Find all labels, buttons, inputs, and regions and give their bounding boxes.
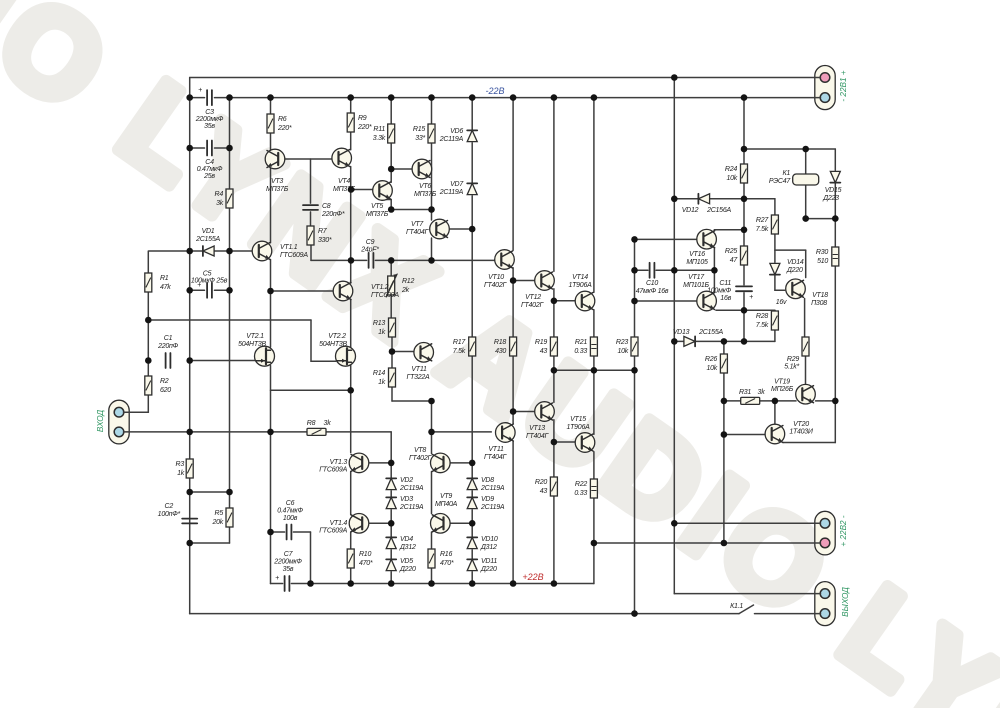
svg-text:VT18: VT18 bbox=[812, 292, 828, 299]
svg-text:ВЫХОД: ВЫХОД bbox=[841, 587, 850, 617]
wire to R28 top bbox=[744, 309, 775, 311]
wire VD2-VD3 bbox=[390, 491, 392, 496]
svg-text:100в: 100в bbox=[283, 515, 298, 522]
svg-text:2k: 2k bbox=[401, 287, 410, 294]
junction bbox=[631, 298, 638, 305]
svg-text:2С156А: 2С156А bbox=[706, 207, 731, 214]
svg-text:430: 430 bbox=[495, 348, 506, 355]
svg-text:VT1.1: VT1.1 bbox=[280, 244, 298, 251]
junction bbox=[741, 338, 748, 345]
svg-text:Д220: Д220 bbox=[786, 267, 803, 274]
resistor R3 bbox=[186, 459, 193, 478]
svg-text:РЭС47: РЭС47 bbox=[769, 178, 791, 185]
svg-text:R11: R11 bbox=[373, 126, 385, 133]
wire VT1.2 base bbox=[271, 290, 334, 292]
diode VD11 bbox=[467, 559, 477, 570]
junction bbox=[832, 215, 839, 222]
wire bbox=[390, 200, 392, 210]
wire VT11 ГТ322А base bbox=[392, 351, 414, 353]
wire VD4-VD5 bbox=[390, 550, 392, 558]
wire R5 top lead bbox=[229, 492, 231, 508]
svg-text:2С119А: 2С119А bbox=[480, 485, 505, 492]
wire VD15 bottom lead bbox=[834, 184, 836, 219]
transistor VT8 bbox=[431, 453, 451, 473]
wire to VT8 bbox=[431, 432, 433, 454]
svg-text:35в: 35в bbox=[204, 123, 215, 130]
svg-text:VD12: VD12 bbox=[682, 207, 699, 214]
junction bbox=[721, 540, 728, 547]
svg-text:1k: 1k bbox=[378, 379, 386, 386]
wire C8 to R7 bbox=[310, 212, 312, 226]
svg-text:2С119А: 2С119А bbox=[399, 504, 424, 511]
junction bbox=[591, 367, 598, 374]
svg-text:VT19: VT19 bbox=[774, 379, 790, 386]
diode VD3 bbox=[386, 497, 396, 508]
junction bbox=[631, 367, 638, 374]
junction bbox=[428, 580, 435, 587]
svg-text:VD13: VD13 bbox=[673, 329, 690, 336]
wire R10 bottom bbox=[350, 568, 352, 584]
svg-text:R20: R20 bbox=[535, 479, 547, 486]
junction bbox=[226, 287, 233, 294]
wire to R12 bbox=[390, 260, 392, 276]
svg-text:VD8: VD8 bbox=[481, 477, 494, 484]
junction bbox=[428, 94, 435, 101]
transistor VT17 bbox=[697, 291, 717, 311]
wire C4 row left bbox=[190, 147, 205, 149]
junction bbox=[186, 357, 193, 364]
svg-text:+22В: +22В bbox=[522, 572, 543, 582]
junction bbox=[469, 460, 476, 467]
svg-text:2С155А: 2С155А bbox=[195, 236, 220, 243]
diode VD4 bbox=[386, 537, 396, 548]
capacitor C11 bbox=[736, 286, 752, 291]
junction bbox=[741, 146, 748, 153]
wire VT3-VT4 bases bbox=[285, 158, 332, 160]
svg-text:МП37Б: МП37Б bbox=[366, 211, 389, 218]
svg-text:МП105: МП105 bbox=[686, 259, 708, 266]
wire R31 to VT19 base bbox=[760, 400, 796, 402]
junction bbox=[721, 398, 728, 405]
junction bbox=[741, 196, 748, 203]
wire VT12 to R19 bbox=[553, 289, 555, 337]
svg-text:Д223: Д223 bbox=[822, 195, 839, 202]
wire rail to VT10 bbox=[512, 98, 514, 251]
wire R14 bottom bbox=[391, 386, 393, 401]
wire sense column top bbox=[634, 239, 636, 337]
wire input top pin to R2 bbox=[124, 411, 149, 413]
svg-text:C9: C9 bbox=[366, 239, 375, 246]
svg-text:470*: 470* bbox=[359, 560, 373, 567]
wire VD12 right bbox=[710, 198, 744, 200]
svg-text:R16: R16 bbox=[440, 551, 452, 558]
svg-text:R9: R9 bbox=[358, 115, 367, 122]
wire relay bottom to VD15 bbox=[806, 218, 836, 220]
wire R26 down to return bbox=[723, 373, 725, 543]
svg-text:0.47мкФ: 0.47мкФ bbox=[277, 508, 303, 515]
resistor R12 bbox=[386, 274, 397, 297]
svg-text:VD6: VD6 bbox=[450, 128, 463, 135]
wire VT7 collector bbox=[449, 228, 472, 230]
svg-text:VD11: VD11 bbox=[481, 558, 497, 565]
wire -22V rail left stub bbox=[190, 97, 205, 99]
wire VT1.4 to R10 bbox=[350, 532, 352, 549]
wire R20 to rail bbox=[553, 496, 555, 584]
wire R27 top lead bbox=[774, 199, 776, 215]
wire VT2.2 gate bbox=[311, 360, 336, 362]
resistor R20 bbox=[550, 477, 557, 496]
wire R15 down past VT6 bbox=[431, 142, 433, 210]
junction bbox=[802, 146, 809, 153]
wire input signal line bbox=[124, 431, 308, 433]
junction bbox=[388, 166, 395, 173]
svg-text:ГТ404Г: ГТ404Г bbox=[484, 454, 508, 461]
wire VT8 emitter bbox=[450, 462, 472, 464]
svg-text:3.3k: 3.3k bbox=[373, 135, 386, 142]
svg-text:R23: R23 bbox=[616, 339, 628, 346]
wire VD13 right run bbox=[696, 340, 775, 342]
svg-text:504НТ3В: 504НТ3В bbox=[238, 341, 266, 348]
connector supply 2 bbox=[815, 511, 835, 555]
wire C7 left bbox=[271, 583, 283, 585]
wire R7 bottom elbow bbox=[310, 245, 312, 260]
wire diode column mid bbox=[471, 196, 473, 463]
diode VD5 bbox=[386, 559, 396, 570]
svg-text:220*: 220* bbox=[277, 125, 292, 132]
junction bbox=[145, 317, 152, 324]
wire C6 right bbox=[293, 531, 310, 533]
transistor VT9 bbox=[431, 514, 451, 534]
wire R27 node to VT18 bbox=[775, 249, 806, 251]
svg-text:ГТС609А: ГТС609А bbox=[319, 467, 347, 474]
junction bbox=[389, 348, 396, 355]
svg-text:C6: C6 bbox=[286, 500, 295, 507]
wire output column bottom bbox=[673, 523, 675, 593]
wire sense column bottom bbox=[634, 356, 636, 614]
svg-text:VD15: VD15 bbox=[825, 187, 842, 194]
wire VT5 to VT7 node bbox=[391, 209, 431, 211]
svg-text:R18: R18 bbox=[494, 339, 506, 346]
capacitor C7 bbox=[285, 576, 290, 591]
wire VT7 emitter bbox=[431, 238, 433, 260]
wire relay top lead bbox=[805, 149, 807, 174]
wire VD14 to base node bbox=[774, 276, 776, 291]
svg-text:+: + bbox=[749, 294, 753, 301]
wire C11 down bbox=[743, 293, 745, 342]
svg-text:C3: C3 bbox=[205, 109, 214, 116]
svg-text:+: + bbox=[198, 87, 202, 94]
wire C6 right down bbox=[310, 532, 312, 584]
wire R25 to C11 bbox=[743, 265, 745, 285]
resistor R9 bbox=[347, 113, 354, 132]
svg-text:VT15: VT15 bbox=[570, 416, 586, 423]
wire R29 to VT19 bbox=[805, 356, 807, 385]
svg-text:VT14: VT14 bbox=[572, 274, 588, 281]
transistor VT16 bbox=[697, 229, 717, 249]
junction bbox=[348, 186, 355, 193]
svg-text:1k: 1k bbox=[177, 470, 185, 477]
junction bbox=[510, 580, 517, 587]
resistor R21 bbox=[590, 337, 597, 356]
wire VD11 bottom bbox=[471, 572, 473, 584]
svg-text:C4: C4 bbox=[205, 159, 214, 166]
svg-text:+ 22В2 -: + 22В2 - bbox=[839, 515, 848, 546]
wire VD13 left bbox=[674, 340, 683, 342]
wire VD9-VD10 bbox=[471, 510, 473, 536]
resistor R18 bbox=[510, 337, 517, 356]
wire R21 to VT15 bbox=[593, 356, 595, 434]
node node VT5-VT7 bbox=[388, 206, 395, 213]
resistor R23 bbox=[631, 337, 638, 356]
junction bbox=[591, 540, 598, 547]
capacitor C4 bbox=[207, 141, 212, 156]
wire VT5 left lead bbox=[351, 189, 373, 191]
junction bbox=[671, 338, 678, 345]
wire to VT11 ГТ404Г base bbox=[432, 431, 492, 433]
svg-text:2200мкФ: 2200мкФ bbox=[195, 116, 224, 123]
junction bbox=[388, 580, 395, 587]
svg-text:2200мкФ: 2200мкФ bbox=[273, 559, 302, 566]
wire into VT7 bbox=[431, 210, 433, 221]
wire R18 to VT11 bbox=[512, 356, 514, 423]
wire output to VYHOD top bbox=[674, 593, 820, 595]
svg-text:VT8: VT8 bbox=[414, 447, 426, 454]
svg-text:ГТ402Г: ГТ402Г bbox=[409, 455, 433, 462]
junction bbox=[802, 215, 809, 222]
svg-text:VT3: VT3 bbox=[271, 178, 283, 185]
svg-text:VT16: VT16 bbox=[689, 251, 705, 258]
transistor VT15 bbox=[575, 433, 595, 453]
wire R22 down to +22V rail bbox=[593, 498, 595, 584]
svg-text:R19: R19 bbox=[535, 339, 547, 346]
svg-text:R10: R10 bbox=[359, 551, 371, 558]
svg-text:1Т906А: 1Т906А bbox=[566, 424, 590, 431]
svg-text:МП37Б: МП37Б bbox=[414, 191, 437, 198]
wire rail to VT12 bbox=[553, 98, 555, 272]
svg-text:VT1.3: VT1.3 bbox=[330, 459, 348, 466]
svg-text:C11: C11 bbox=[719, 280, 731, 287]
junction bbox=[428, 398, 435, 405]
wire R28 bottom to VD13 run bbox=[774, 329, 776, 341]
wire VD1 left bbox=[190, 250, 203, 252]
junction bbox=[267, 94, 274, 101]
junction bbox=[671, 196, 678, 203]
junction bbox=[388, 94, 395, 101]
wire VD5 bottom bbox=[390, 572, 392, 584]
wire elbow bbox=[834, 401, 836, 443]
svg-text:VT4: VT4 bbox=[338, 178, 350, 185]
diode VD12 bbox=[698, 194, 709, 204]
svg-text:470*: 470* bbox=[440, 560, 454, 567]
wire VT15 base bbox=[554, 441, 576, 443]
svg-text:100мкФ 25в: 100мкФ 25в bbox=[191, 278, 228, 285]
wire VT3 to VT1.1 bbox=[270, 168, 272, 243]
junction bbox=[631, 267, 638, 274]
svg-text:VT5: VT5 bbox=[371, 203, 383, 210]
junction bbox=[741, 94, 748, 101]
svg-text:VT9: VT9 bbox=[440, 493, 452, 500]
svg-text:VT6: VT6 bbox=[419, 183, 431, 190]
svg-text:VT11: VT11 bbox=[411, 366, 427, 373]
diode VD1 bbox=[203, 246, 214, 256]
transistor VT2.2 bbox=[336, 346, 356, 366]
capacitor C5 bbox=[207, 283, 212, 298]
connector VHOD input bbox=[109, 400, 129, 444]
wire VT1.3 to VT1.4 bbox=[350, 472, 352, 515]
wire VT17 collector bbox=[713, 270, 715, 292]
svg-text:R30: R30 bbox=[816, 249, 828, 256]
wire VT13 to R20 bbox=[553, 420, 555, 477]
svg-text:10k: 10k bbox=[617, 348, 628, 355]
junction bbox=[741, 227, 748, 234]
svg-text:25в: 25в bbox=[203, 173, 215, 180]
svg-text:VD9: VD9 bbox=[481, 496, 494, 503]
wire VT2.1 source down bbox=[270, 366, 272, 433]
svg-text:R21: R21 bbox=[575, 339, 587, 346]
svg-text:43: 43 bbox=[540, 488, 548, 495]
wire R13 to R14 bbox=[391, 336, 393, 368]
svg-text:C7: C7 bbox=[284, 551, 294, 558]
diode VD9 bbox=[467, 497, 477, 508]
capacitor C8 bbox=[303, 205, 318, 210]
svg-text:R3: R3 bbox=[176, 461, 185, 468]
diode VD13 bbox=[684, 336, 695, 346]
svg-text:ГТС609А: ГТС609А bbox=[280, 252, 308, 259]
wire VT1.2 through VT2.2 to VT1.3 bbox=[350, 300, 352, 453]
svg-text:R29: R29 bbox=[787, 356, 799, 363]
svg-text:МП40А: МП40А bbox=[435, 501, 458, 508]
svg-text:R6: R6 bbox=[278, 116, 287, 123]
svg-text:33*: 33* bbox=[415, 135, 425, 142]
wire -22V rail bbox=[215, 97, 821, 99]
svg-text:504НТ3В: 504НТ3В bbox=[319, 341, 347, 348]
svg-text:ГТ404Г: ГТ404Г bbox=[526, 433, 550, 440]
svg-text:ГТ322А: ГТ322А bbox=[407, 374, 431, 381]
resistor R24 bbox=[741, 164, 748, 183]
wire output to +22V2 cyan bbox=[674, 522, 820, 524]
diode VD10 bbox=[467, 537, 477, 548]
junction bbox=[186, 540, 193, 547]
resistor R29 bbox=[802, 337, 809, 356]
capacitor C3 bbox=[207, 90, 212, 105]
wire VD13 row to R26 bbox=[723, 341, 725, 354]
svg-text:-22В: -22В bbox=[485, 86, 504, 96]
svg-text:5.1k*: 5.1k* bbox=[784, 364, 799, 371]
transistor VT7 bbox=[430, 219, 450, 239]
svg-text:R14: R14 bbox=[373, 370, 385, 377]
wire C9 to VT10 base bbox=[375, 259, 496, 261]
resistor R17 bbox=[469, 337, 476, 356]
svg-text:2С119А: 2С119А bbox=[480, 504, 505, 511]
wire bus x=229.5 bbox=[229, 98, 231, 492]
junction bbox=[226, 248, 233, 255]
relay contact K1.1 bbox=[739, 605, 754, 614]
wire VT1.1 base bbox=[230, 250, 253, 252]
resistor R28 bbox=[771, 311, 778, 330]
wire VD12 left bbox=[674, 198, 698, 200]
wire C10 right to emitters bbox=[656, 269, 714, 271]
svg-text:ГТ404Г: ГТ404Г bbox=[406, 229, 430, 236]
wire R16 bottom bbox=[431, 568, 433, 584]
wire R11 top lead bbox=[390, 98, 392, 124]
svg-text:C2: C2 bbox=[165, 503, 174, 510]
svg-text:0.33: 0.33 bbox=[574, 490, 587, 497]
svg-text:3k: 3k bbox=[216, 200, 224, 207]
svg-text:VT13: VT13 bbox=[529, 425, 545, 432]
resistor R27 bbox=[771, 215, 778, 234]
svg-text:10k: 10k bbox=[706, 365, 717, 372]
wire VT18 emitter to R29 bbox=[804, 299, 806, 338]
wire R8 to VD2 column bbox=[326, 431, 391, 433]
junction bbox=[551, 439, 558, 446]
transistor VT1.2 bbox=[333, 281, 353, 301]
svg-text:VT10: VT10 bbox=[488, 274, 504, 281]
svg-text:R22: R22 bbox=[575, 481, 587, 488]
svg-text:VT1.2: VT1.2 bbox=[371, 284, 389, 291]
svg-text:МП37Б: МП37Б bbox=[266, 186, 289, 193]
svg-text:+: + bbox=[275, 575, 279, 582]
transistor VT2.1 bbox=[255, 346, 275, 366]
svg-text:7.5k: 7.5k bbox=[453, 348, 466, 355]
wire VT12 base bbox=[513, 280, 535, 282]
resistor R13 bbox=[389, 318, 396, 337]
junction bbox=[186, 429, 193, 436]
diode VD7 bbox=[467, 183, 477, 194]
wire VD2 top lead bbox=[390, 463, 392, 478]
svg-text:100пФ*: 100пФ* bbox=[158, 511, 181, 518]
svg-text:35в: 35в bbox=[283, 566, 294, 573]
transistor VT6 bbox=[412, 159, 432, 179]
wire VT2 sources join bbox=[271, 389, 351, 391]
svg-text:2С119А: 2С119А bbox=[439, 189, 464, 196]
wire left main bus x=189.7 bbox=[189, 78, 191, 614]
svg-text:R8: R8 bbox=[307, 420, 316, 427]
wire +22V rail bbox=[291, 583, 594, 585]
svg-text:Д312: Д312 bbox=[480, 544, 497, 551]
wire VT19 base node to VT20 bbox=[774, 401, 776, 425]
wire VT20 base bbox=[724, 434, 765, 436]
svg-text:Д220: Д220 bbox=[399, 566, 416, 573]
svg-text:К1: К1 bbox=[782, 170, 790, 177]
svg-text:24pF*: 24pF* bbox=[360, 247, 379, 254]
connector VYHOD output bbox=[815, 582, 835, 626]
transistor VT19 bbox=[796, 384, 816, 404]
wire down to VD2 top bbox=[390, 432, 392, 463]
svg-text:20k: 20k bbox=[211, 519, 223, 526]
diode VD2 bbox=[386, 478, 396, 489]
svg-text:VD1: VD1 bbox=[202, 228, 215, 235]
resistor R6 bbox=[267, 114, 274, 133]
wire VD1 right bbox=[214, 250, 229, 252]
svg-text:К1.1: К1.1 bbox=[730, 603, 743, 610]
junction bbox=[347, 94, 354, 101]
wire down bbox=[431, 401, 433, 432]
capacitor C1 bbox=[166, 353, 171, 368]
junction bbox=[186, 287, 193, 294]
wire R9 to VT4 bbox=[350, 132, 352, 150]
svg-text:R28: R28 bbox=[756, 313, 768, 320]
wire VT16 base line bbox=[635, 238, 698, 240]
wire R1 bottom lead bbox=[147, 292, 149, 320]
transistor VT13 bbox=[535, 402, 555, 422]
wire C5 left bbox=[190, 289, 205, 291]
svg-text:C10: C10 bbox=[646, 280, 658, 287]
wire VT13 base bbox=[513, 411, 535, 413]
wire output column mid bbox=[673, 341, 675, 523]
svg-text:Д312: Д312 bbox=[399, 544, 416, 551]
wire VT2.1 gate / C1 node bbox=[190, 360, 255, 362]
svg-text:3k: 3k bbox=[324, 420, 332, 427]
